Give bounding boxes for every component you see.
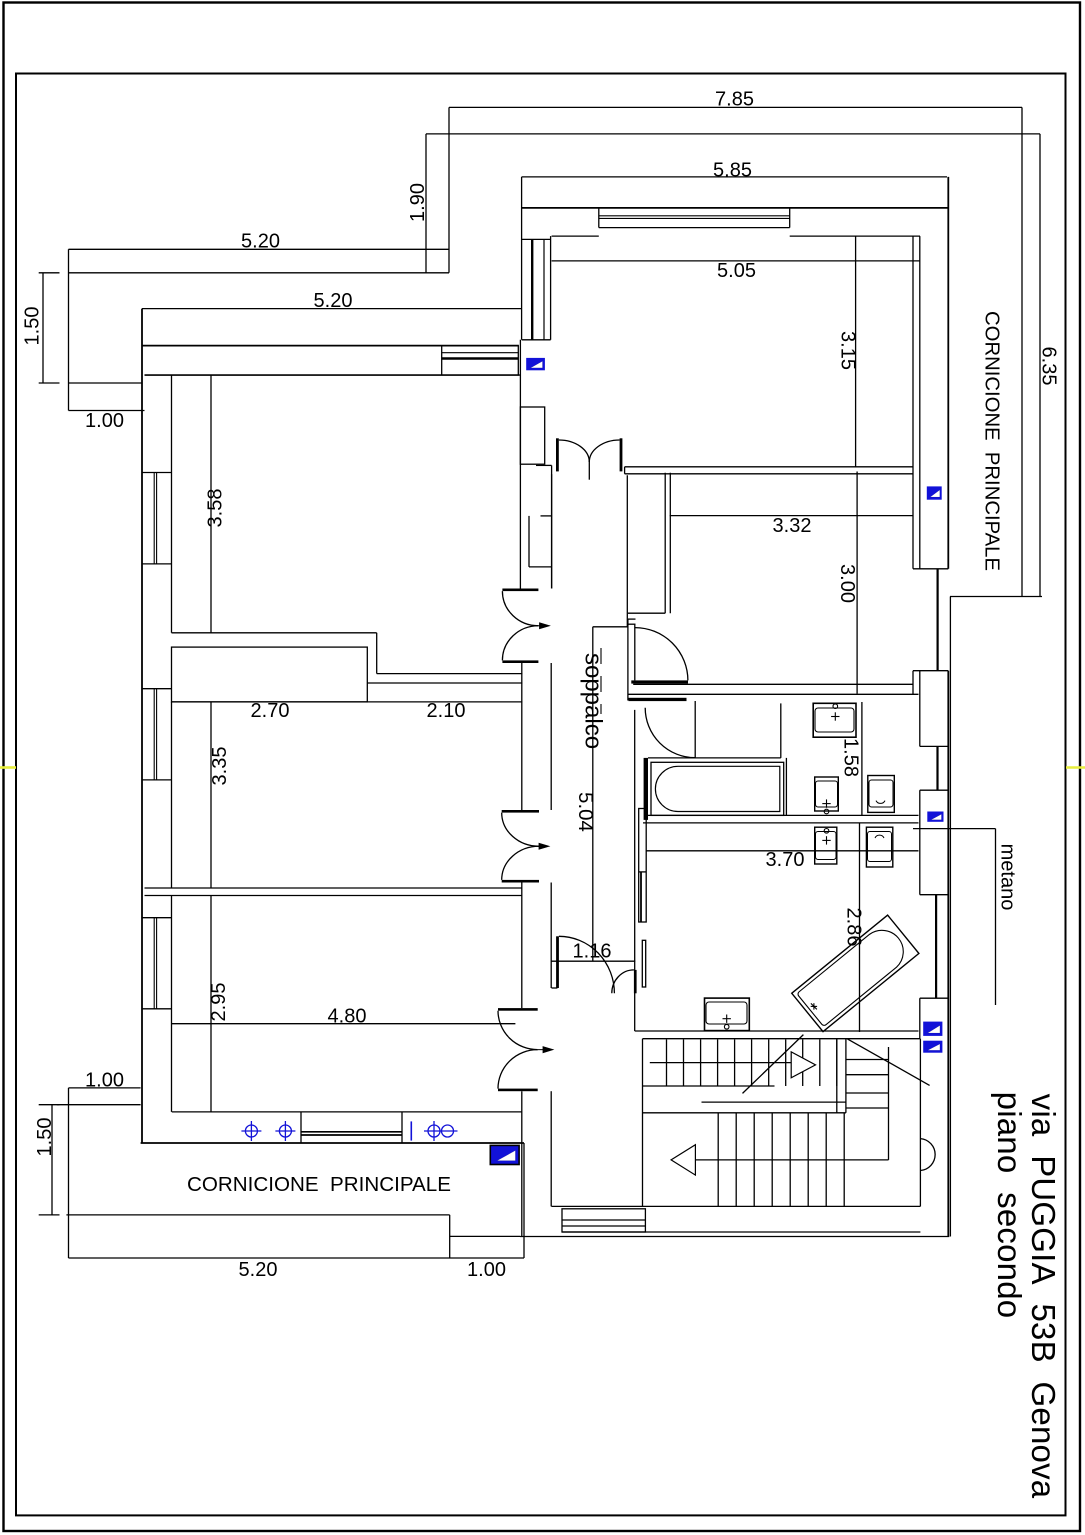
svg-text:1.00: 1.00 bbox=[467, 1259, 506, 1281]
svg-text:1.00: 1.00 bbox=[85, 410, 124, 432]
svg-text:5.05: 5.05 bbox=[717, 260, 756, 282]
svg-text:5.20: 5.20 bbox=[241, 231, 280, 253]
svg-text:3.35: 3.35 bbox=[209, 747, 231, 786]
svg-text:2.10: 2.10 bbox=[427, 700, 466, 722]
svg-text:5.20: 5.20 bbox=[239, 1259, 278, 1281]
svg-text:2.86: 2.86 bbox=[843, 908, 865, 947]
svg-text:soppalco: soppalco bbox=[580, 653, 607, 749]
svg-text:2.70: 2.70 bbox=[251, 700, 290, 722]
svg-text:7.85: 7.85 bbox=[715, 89, 754, 111]
svg-text:5.20: 5.20 bbox=[314, 290, 353, 312]
svg-text:5.04: 5.04 bbox=[574, 792, 597, 832]
svg-text:metano: metano bbox=[997, 844, 1019, 911]
svg-text:1.50: 1.50 bbox=[22, 307, 44, 346]
svg-text:5.85: 5.85 bbox=[713, 160, 752, 182]
svg-text:3.58: 3.58 bbox=[205, 489, 227, 528]
svg-text:1.50: 1.50 bbox=[34, 1118, 56, 1157]
svg-text:1.90: 1.90 bbox=[407, 183, 429, 222]
svg-text:6.35: 6.35 bbox=[1038, 347, 1060, 386]
svg-text:4.80: 4.80 bbox=[328, 1006, 367, 1028]
svg-text:1.58: 1.58 bbox=[840, 738, 862, 777]
svg-text:1.00: 1.00 bbox=[85, 1070, 124, 1092]
svg-text:via PUGGIA 53B Genova: via PUGGIA 53B Genova bbox=[1025, 1094, 1062, 1499]
svg-text:1.16: 1.16 bbox=[573, 941, 612, 963]
svg-text:CORNICIONE PRINCIPALE: CORNICIONE PRINCIPALE bbox=[187, 1173, 451, 1196]
svg-text:2.95: 2.95 bbox=[208, 983, 230, 1022]
svg-text:3.70: 3.70 bbox=[766, 849, 805, 871]
svg-text:piano secondo: piano secondo bbox=[991, 1092, 1028, 1319]
svg-text:CORNICIONE PRINCIPALE: CORNICIONE PRINCIPALE bbox=[981, 311, 1003, 571]
svg-text:3.00: 3.00 bbox=[836, 564, 858, 603]
svg-text:3.15: 3.15 bbox=[837, 331, 859, 370]
svg-text:3.32: 3.32 bbox=[773, 515, 812, 537]
